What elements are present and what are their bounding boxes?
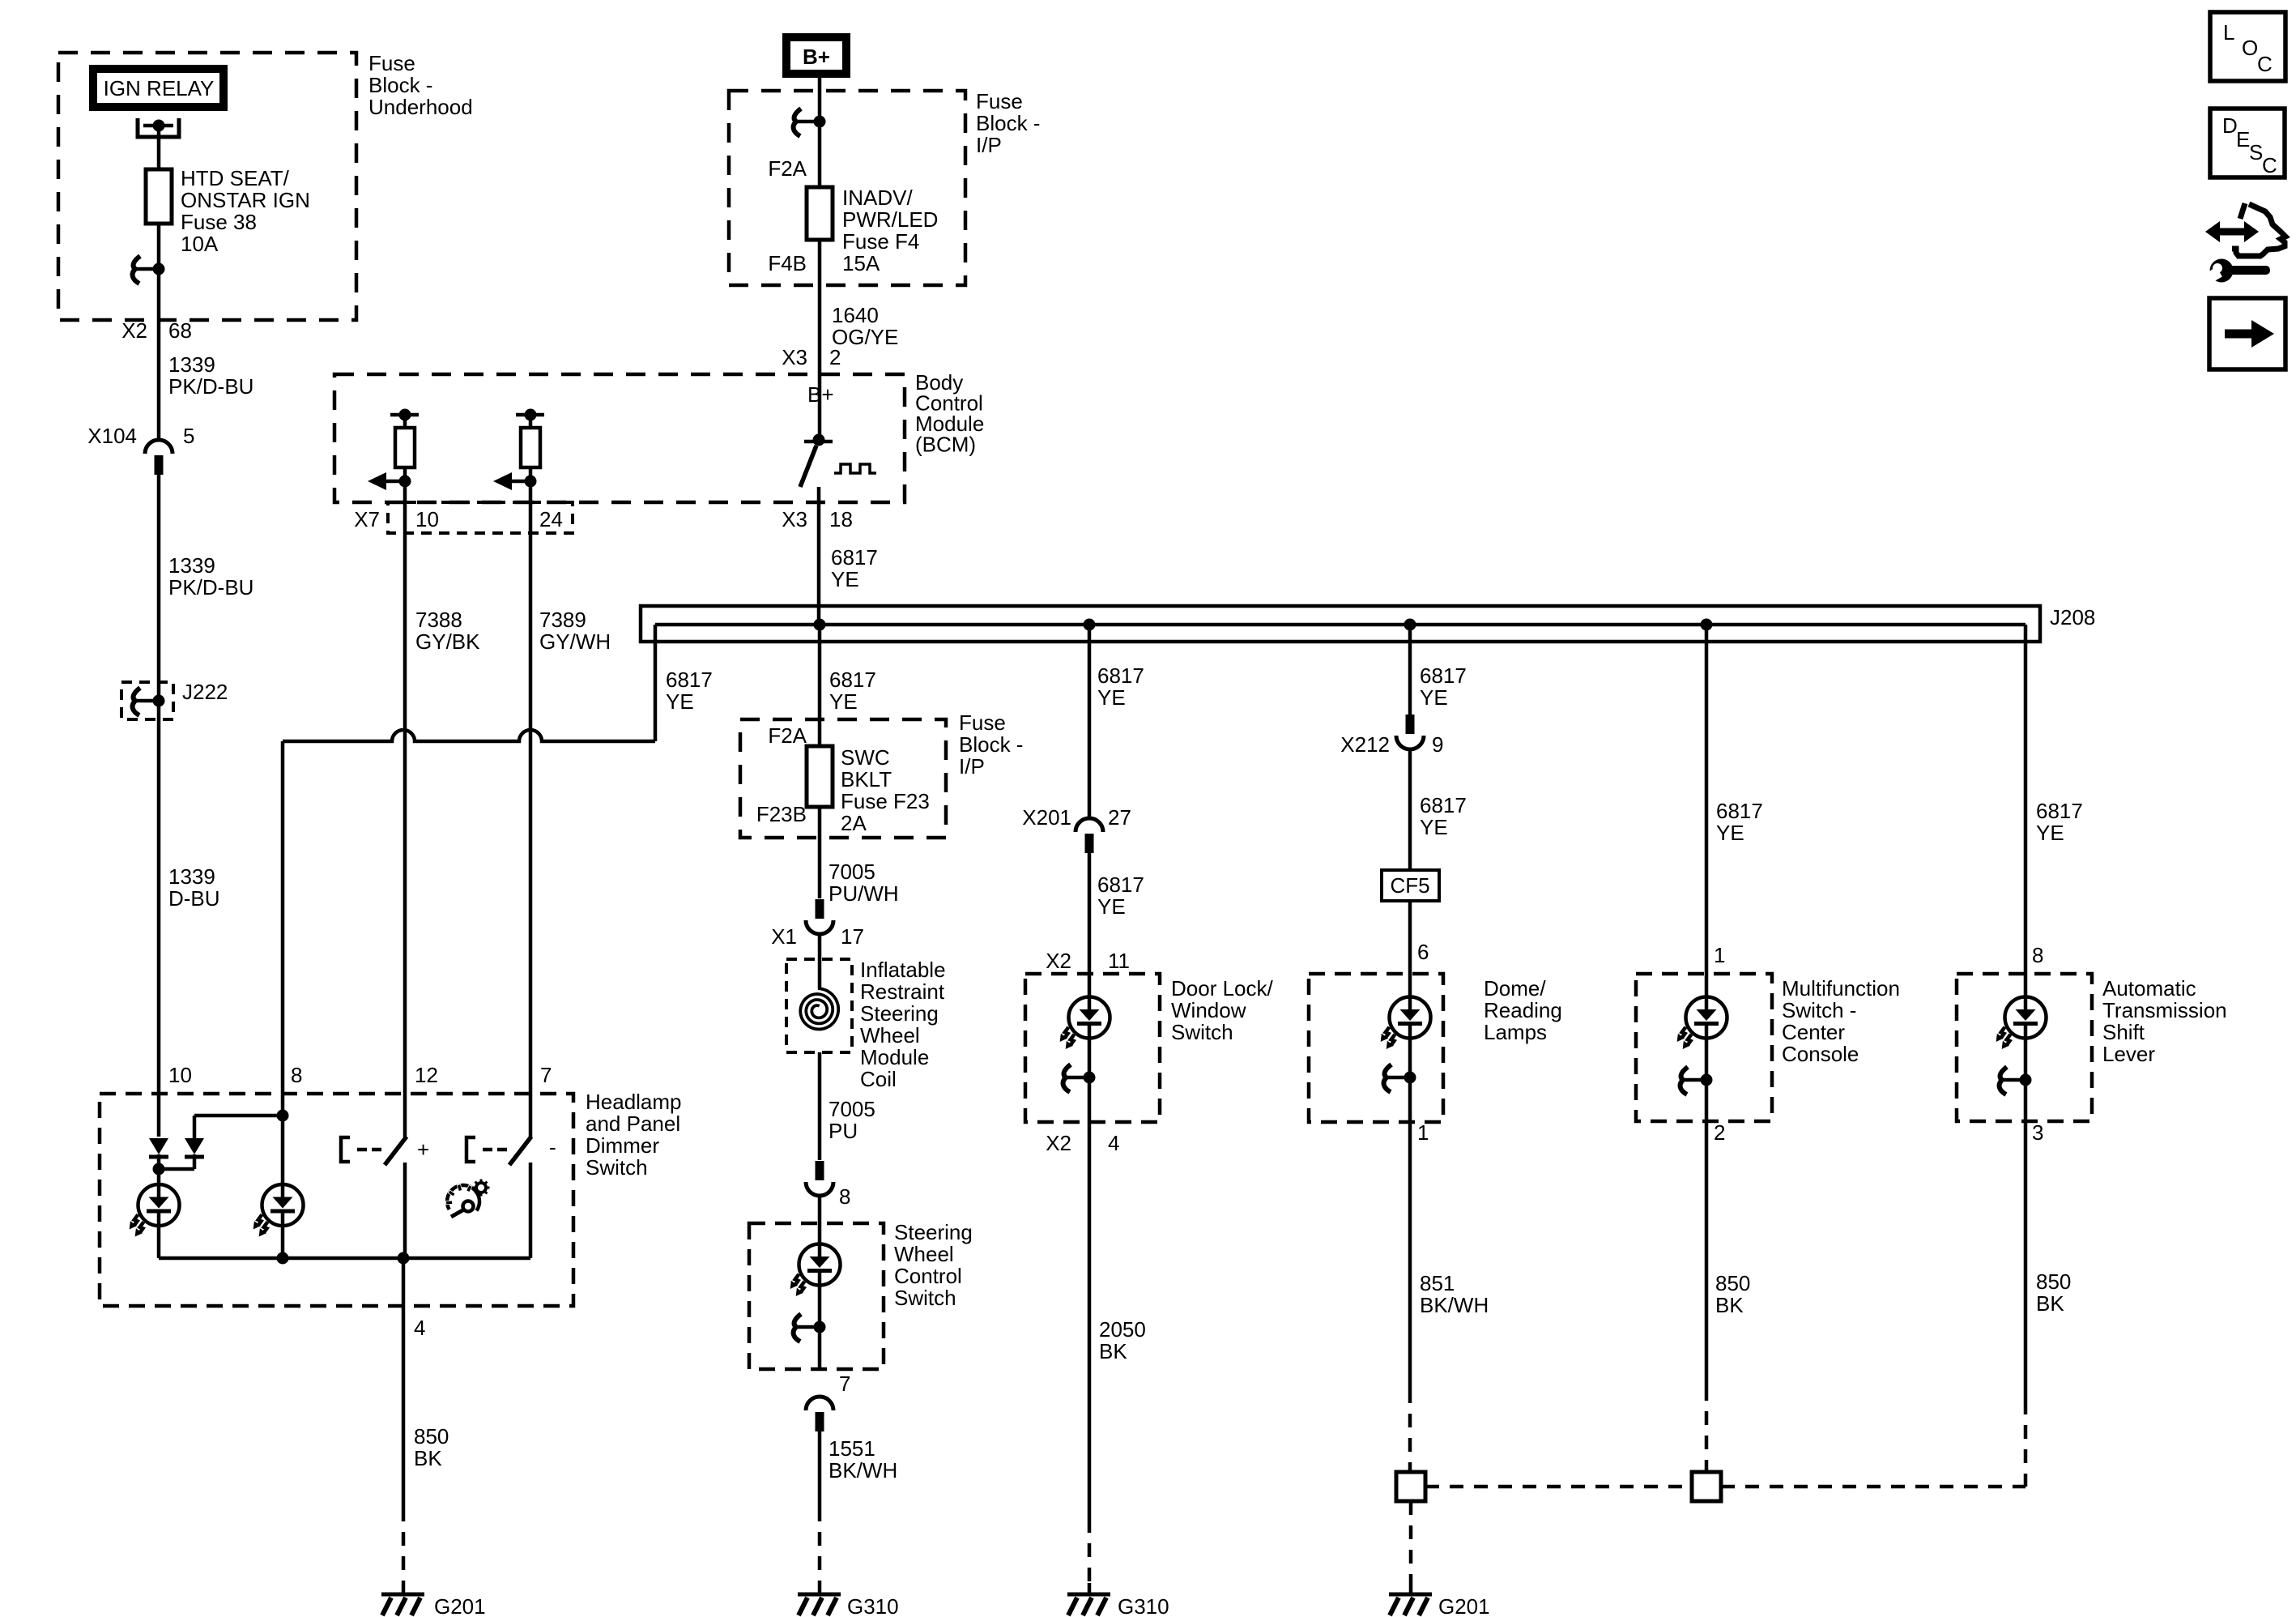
svg-text:6817: 6817 [1097, 872, 1144, 897]
wire BCM driver1 to dimmer + switch [403, 481, 407, 1137]
multifunction switch box [1636, 974, 1772, 1121]
svg-text:7: 7 [839, 1372, 850, 1396]
splice J222 clip [133, 688, 165, 715]
svg-text:8: 8 [2032, 943, 2043, 967]
svg-text:J222: J222 [182, 680, 228, 704]
fuse block I/P box (top) [729, 91, 965, 285]
svg-text:X212: X212 [1340, 732, 1390, 757]
wire pin8 to LED 2 [281, 1116, 285, 1184]
wire coil to connector 8 [818, 1052, 822, 1160]
ground G310 (door lock) [1067, 1583, 1110, 1615]
svg-text:OG/YE: OG/YE [832, 325, 898, 349]
svg-text:F2A: F2A [768, 723, 807, 748]
svg-text:68: 68 [168, 318, 192, 343]
svg-text:PK/D-BU: PK/D-BU [168, 575, 253, 599]
svg-text:Inflatable: Inflatable [860, 958, 946, 982]
shift ground clip [2000, 1067, 2032, 1094]
svg-text:8: 8 [839, 1184, 850, 1209]
svg-text:Block -: Block - [368, 73, 432, 97]
LED SWC backlight [787, 1244, 841, 1299]
svg-text:X7: X7 [354, 507, 380, 531]
wire - switch lower [529, 1163, 533, 1258]
svg-text:ONSTAR IGN: ONSTAR IGN [181, 188, 310, 212]
connector X7 box [388, 502, 573, 533]
svg-text:D-BU: D-BU [168, 886, 220, 911]
headlamp and panel dimmer switch box [100, 1094, 573, 1306]
dimmer internal bus [159, 1256, 530, 1261]
svg-text:6817: 6817 [666, 668, 713, 692]
svg-text:G310: G310 [847, 1594, 899, 1617]
svg-text:YE: YE [1097, 894, 1126, 919]
wire BCM driver2 to dimmer - switch [529, 481, 533, 1137]
svg-text:8: 8 [291, 1063, 302, 1087]
svg-text:850: 850 [1715, 1271, 1750, 1295]
svg-text:7: 7 [540, 1063, 552, 1087]
svg-text:PWR/LED: PWR/LED [842, 207, 938, 232]
svg-text:1: 1 [1714, 943, 1725, 967]
wire label 1551 BK/WH [818, 1431, 822, 1508]
svg-text:GY/WH: GY/WH [539, 629, 611, 654]
svg-text:Switch: Switch [586, 1155, 648, 1180]
svg-text:6: 6 [1417, 940, 1429, 964]
svg-text:Switch: Switch [1171, 1020, 1233, 1044]
BCM driver 1 (pin X7 10) [368, 409, 419, 491]
svg-text:Door Lock/: Door Lock/ [1171, 976, 1273, 1000]
svg-text:Restraint: Restraint [860, 979, 945, 1004]
arrow icon box [2209, 298, 2285, 369]
svg-text:X1: X1 [771, 924, 797, 949]
svg-text:6817: 6817 [1420, 663, 1467, 688]
svg-text:Coil: Coil [860, 1067, 897, 1091]
BCM driver 2 (pin X7 24) [493, 409, 544, 491]
automatic transmission shift lever box [1957, 974, 2092, 1121]
svg-text:15A: 15A [842, 251, 880, 275]
svg-text:Headlamp: Headlamp [586, 1090, 682, 1114]
svg-text:1339: 1339 [168, 352, 215, 377]
svg-text:X2: X2 [1046, 949, 1071, 973]
relay K contact bracket [138, 118, 179, 137]
svg-text:2050: 2050 [1099, 1317, 1146, 1342]
svg-text:17: 17 [841, 924, 864, 949]
svg-text:10: 10 [168, 1063, 192, 1087]
car connector icon [2232, 203, 2285, 256]
svg-text:Control: Control [894, 1264, 962, 1288]
splice pack J208 bus wire [655, 623, 2026, 627]
svg-text:Fuse: Fuse [368, 51, 415, 75]
wire CF5 to dome lamps [1408, 901, 1412, 997]
svg-text:Fuse 38: Fuse 38 [181, 210, 257, 234]
svg-text:HTD SEAT/: HTD SEAT/ [181, 166, 290, 190]
svg-text:GY/BK: GY/BK [415, 629, 480, 654]
svg-text:2: 2 [829, 345, 841, 369]
fuse F23 SWC BKLT 2A [818, 746, 822, 807]
svg-text:YE: YE [829, 689, 858, 714]
ground G201 (dimmer) [381, 1583, 424, 1615]
steering wheel coil spiral [800, 988, 838, 1030]
wire J208 left drop to dimmer [654, 625, 658, 741]
dimmer + switch [341, 1137, 350, 1162]
SWC ground clip [794, 1314, 826, 1342]
svg-text:850: 850 [414, 1424, 449, 1448]
wire J208 to shift lever [2024, 625, 2028, 997]
node pin8 junction [194, 1114, 283, 1118]
svg-text:1339: 1339 [168, 864, 215, 889]
svg-text:Shift: Shift [2102, 1020, 2145, 1044]
svg-text:L: L [2223, 20, 2234, 45]
svg-text:2: 2 [1714, 1120, 1725, 1145]
svg-text:Multifunction: Multifunction [1782, 976, 1900, 1000]
svg-text:Switch: Switch [894, 1286, 956, 1310]
svg-text:BK/WH: BK/WH [829, 1458, 897, 1483]
wire + switch lower [403, 1163, 407, 1258]
wire J208 to multifunction switch [1705, 625, 1709, 997]
svg-text:6817: 6817 [1420, 793, 1467, 817]
fuse block I/P box (SWC) [740, 719, 946, 838]
wire BCM switch to X3 18 [817, 487, 821, 625]
multifunction ground clip [1680, 1067, 1713, 1094]
BCM internal switch [804, 440, 833, 444]
connector pin 8 [806, 1161, 833, 1196]
svg-text:BK: BK [1715, 1293, 1744, 1317]
svg-text:G201: G201 [434, 1594, 486, 1617]
svg-text:BK: BK [414, 1446, 442, 1470]
svg-text:6817: 6817 [831, 545, 878, 570]
DESC icon box [2210, 109, 2285, 177]
dimmer - switch [466, 1137, 475, 1162]
svg-text:1551: 1551 [829, 1436, 875, 1461]
svg-text:Module: Module [860, 1045, 929, 1069]
svg-text:BK: BK [1099, 1339, 1127, 1363]
wire B+ to fuse block I/P [818, 78, 822, 187]
node J208 dome [1404, 619, 1416, 631]
svg-text:F4B: F4B [768, 251, 807, 275]
svg-text:C: C [2257, 52, 2273, 76]
node diode join [159, 1167, 194, 1171]
inline CF5 box [1382, 870, 1439, 901]
LED panel illumination 2 [250, 1184, 304, 1239]
svg-text:SWC: SWC [841, 745, 890, 770]
dome ground clip [1384, 1064, 1416, 1092]
LED panel illumination 1 [126, 1184, 180, 1239]
svg-text:D: D [2222, 113, 2238, 138]
splice J222 box [121, 682, 173, 719]
node relay output [153, 120, 165, 132]
svg-text:Fuse: Fuse [976, 89, 1023, 113]
svg-text:BK: BK [2036, 1291, 2064, 1316]
svg-text:12: 12 [415, 1063, 438, 1087]
svg-text:Underhood: Underhood [368, 95, 473, 119]
connector X212 pin 9 [1396, 715, 1424, 749]
svg-text:YE: YE [2036, 821, 2064, 845]
svg-text:J208: J208 [2050, 605, 2095, 629]
svg-text:6817: 6817 [829, 668, 876, 692]
svg-text:I/P: I/P [959, 754, 985, 779]
svg-text:6817: 6817 [2036, 799, 2083, 823]
node J208 door lock [1084, 619, 1096, 631]
fuse 38 HTD SEAT/ONSTAR IGN 10A [157, 169, 161, 224]
svg-text:Automatic: Automatic [2102, 976, 2196, 1000]
connector X1 pin 17 [806, 899, 833, 934]
wrench icon [2196, 259, 2270, 289]
svg-text:Dome/: Dome/ [1484, 976, 1546, 1000]
svg-text:9: 9 [1432, 732, 1443, 757]
terminal clip B+ feed [794, 109, 826, 136]
svg-text:851: 851 [1420, 1271, 1455, 1295]
svg-text:YE: YE [1716, 821, 1744, 845]
svg-text:24: 24 [539, 507, 563, 531]
svg-text:4: 4 [1108, 1131, 1119, 1155]
svg-text:C: C [2262, 153, 2277, 177]
svg-text:1339: 1339 [168, 553, 215, 578]
splice pack J208 outer [641, 606, 2040, 642]
svg-text:Fuse: Fuse [959, 710, 1006, 735]
dashed splice bus dome-multifunction [1425, 1485, 1692, 1489]
connector X201 pin 27 [1076, 818, 1103, 853]
svg-text:X201: X201 [1022, 805, 1071, 830]
svg-text:X3: X3 [782, 507, 807, 531]
svg-text:G310: G310 [1118, 1594, 1169, 1617]
svg-text:Window: Window [1171, 998, 1246, 1022]
wire X212 to CF5 [1408, 749, 1412, 870]
svg-text:+: + [417, 1137, 429, 1162]
wire fuse F4 to BCM X3 2 [818, 240, 822, 440]
diode D1 [149, 1138, 168, 1157]
svg-text:Fuse F23: Fuse F23 [841, 789, 930, 813]
steering wheel control switch box [818, 1196, 822, 1244]
ground G310 (SWC) [798, 1583, 841, 1615]
wire J208 to fuse F23 [818, 625, 822, 746]
svg-text:CF5: CF5 [1390, 873, 1429, 898]
body control module (BCM) box [334, 374, 905, 502]
svg-text:PU: PU [829, 1119, 858, 1143]
svg-text:2A: 2A [841, 811, 867, 835]
svg-text:Steering: Steering [894, 1220, 973, 1244]
LED multifunction illumination [1674, 997, 1727, 1052]
ground G201 (dome) [1389, 1583, 1432, 1615]
steering wheel module coil box [818, 934, 822, 988]
svg-text:YE: YE [1420, 815, 1448, 839]
svg-text:6817: 6817 [1716, 799, 1763, 823]
svg-text:5: 5 [183, 424, 194, 448]
LED door lock illumination [1057, 997, 1110, 1052]
svg-text:10: 10 [415, 507, 439, 531]
svg-text:850: 850 [2036, 1269, 2071, 1294]
svg-text:7389: 7389 [539, 608, 586, 632]
svg-text:O: O [2242, 36, 2258, 60]
svg-text:YE: YE [1420, 685, 1448, 710]
svg-text:Switch -: Switch - [1782, 998, 1856, 1022]
svg-text:Wheel: Wheel [894, 1242, 954, 1266]
splice square (multifunction) [1692, 1472, 1721, 1501]
svg-text:X104: X104 [87, 424, 137, 448]
svg-text:4: 4 [414, 1316, 425, 1340]
svg-text:Transmission: Transmission [2102, 998, 2227, 1022]
svg-text:G201: G201 [1438, 1594, 1490, 1617]
svg-text:11: 11 [1108, 949, 1130, 973]
wire pin 4 out [402, 1258, 406, 1508]
dimmer rheostat icon [445, 1180, 489, 1218]
svg-text:I/P: I/P [976, 133, 1002, 157]
svg-text:6817: 6817 [1097, 663, 1144, 688]
svg-text:B+: B+ [803, 45, 830, 69]
wire relay to fuse 38 [157, 126, 161, 169]
svg-text:(BCM): (BCM) [915, 433, 976, 457]
wire X201 to door lock switch [1088, 852, 1092, 997]
svg-text:E: E [2236, 127, 2250, 151]
svg-text:BKLT: BKLT [841, 767, 892, 791]
svg-text:7005: 7005 [829, 860, 875, 884]
wire fuse F23 to X1 17 [818, 807, 822, 898]
IGN RELAY label box [89, 65, 228, 111]
svg-text:X2: X2 [121, 318, 147, 343]
svg-text:Reading: Reading [1484, 998, 1562, 1022]
LED shift illumination [1993, 997, 2047, 1052]
svg-text:Console: Console [1782, 1042, 1859, 1066]
svg-text:Center: Center [1782, 1020, 1845, 1044]
double arrow [2205, 221, 2259, 242]
dome/reading lamps box [1309, 974, 1443, 1122]
svg-text:1640: 1640 [832, 303, 879, 327]
svg-text:-: - [549, 1135, 556, 1159]
svg-text:Lamps: Lamps [1484, 1020, 1547, 1044]
svg-text:BK/WH: BK/WH [1420, 1293, 1489, 1317]
LOC icon box [2210, 12, 2285, 81]
B+ power box [782, 33, 850, 78]
door lock/window switch box [1025, 974, 1160, 1122]
svg-text:YE: YE [831, 567, 859, 591]
svg-text:Wheel: Wheel [860, 1023, 920, 1047]
svg-text:Block -: Block - [976, 111, 1040, 135]
svg-text:7388: 7388 [415, 608, 462, 632]
svg-text:IGN RELAY: IGN RELAY [104, 76, 215, 100]
svg-text:PU/WH: PU/WH [829, 881, 899, 906]
svg-text:Block -: Block - [959, 732, 1023, 757]
svg-text:F2A: F2A [768, 156, 807, 181]
fuse F4 INADV/PWR/LED 15A [818, 187, 822, 240]
wire J208 to X201 [1088, 625, 1092, 818]
svg-text:Fuse F4: Fuse F4 [842, 229, 919, 254]
svg-text:X3: X3 [782, 345, 807, 369]
svg-text:YE: YE [1097, 685, 1126, 710]
svg-text:18: 18 [829, 507, 853, 531]
wire fuse to X2 pin 68 [157, 224, 161, 439]
svg-text:Dimmer: Dimmer [586, 1133, 659, 1158]
LED dome lamp [1378, 997, 1431, 1052]
svg-text:S: S [2249, 140, 2263, 164]
svg-text:3: 3 [2032, 1120, 2043, 1145]
svg-text:Lever: Lever [2102, 1042, 2155, 1066]
svg-text:and Panel: and Panel [586, 1111, 680, 1136]
svg-text:YE: YE [666, 689, 694, 714]
splice square (dome) [1396, 1472, 1425, 1501]
svg-text:INADV/: INADV/ [842, 186, 913, 210]
diode D2 [193, 1116, 197, 1138]
svg-text:Steering: Steering [860, 1001, 939, 1026]
node J208 bcm [814, 619, 826, 631]
node J208 multifunction [1701, 619, 1713, 631]
terminal clip fuse 38 output [133, 256, 165, 284]
svg-text:X2: X2 [1046, 1131, 1071, 1155]
svg-text:27: 27 [1108, 805, 1131, 830]
svg-text:10A: 10A [181, 232, 219, 256]
svg-text:B+: B+ [807, 382, 834, 407]
wire J208 to X212 [1408, 625, 1412, 716]
BCM PWM waveform [834, 464, 876, 473]
fuse block underhood box [58, 53, 356, 320]
svg-text:1: 1 [1417, 1120, 1429, 1145]
svg-text:7005: 7005 [829, 1097, 875, 1121]
door lock ground clip [1063, 1064, 1096, 1092]
dashed splice bus multifunction-shift [1721, 1485, 2026, 1489]
wire X104 to J222 to dimmer switch [157, 475, 161, 1137]
svg-text:PK/D-BU: PK/D-BU [168, 374, 253, 399]
svg-text:F23B: F23B [756, 802, 807, 826]
